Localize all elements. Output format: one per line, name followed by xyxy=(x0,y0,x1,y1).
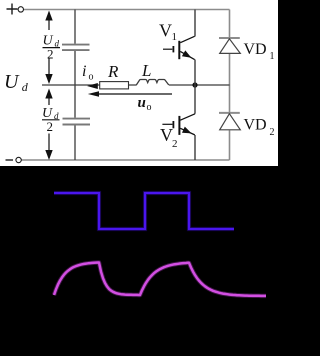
label Ud/2 upper xyxy=(43,34,61,62)
plus terminal xyxy=(7,4,24,15)
waveform uo square wave xyxy=(54,193,234,229)
label Ud/2 lower xyxy=(42,106,60,134)
node junction dot xyxy=(192,82,197,87)
inductor L xyxy=(136,80,169,86)
minus terminal xyxy=(6,157,22,162)
wire bottom rail xyxy=(21,159,229,161)
svg-text:1: 1 xyxy=(270,51,275,62)
current arrow io xyxy=(87,83,98,89)
wire top rail xyxy=(24,9,230,11)
wire right rail segments xyxy=(229,10,231,161)
label uo xyxy=(138,95,152,113)
svg-text:o: o xyxy=(89,72,94,83)
capacitor C1 xyxy=(62,45,90,51)
dimension arrow upper Ud/2 xyxy=(45,11,52,85)
diode VD2 xyxy=(219,113,240,130)
svg-text:2: 2 xyxy=(47,47,54,62)
svg-text:L: L xyxy=(141,61,151,80)
svg-text:VD: VD xyxy=(244,41,267,58)
label VD2 xyxy=(244,117,275,138)
capacitor C2 xyxy=(63,119,91,125)
svg-text:u: u xyxy=(138,95,146,111)
wire IGBT branch xyxy=(194,10,196,161)
label Ud source xyxy=(4,71,29,94)
svg-text:V: V xyxy=(159,21,172,41)
label V1 xyxy=(159,21,177,44)
svg-text:i: i xyxy=(82,63,86,80)
label V2 xyxy=(160,125,178,150)
transistor V1 (IGBT) xyxy=(163,36,195,59)
resistor R xyxy=(100,82,129,89)
svg-text:d: d xyxy=(22,80,29,94)
voltage arrow uo xyxy=(88,91,172,97)
svg-text:VD: VD xyxy=(244,117,267,134)
dimension arrow lower Ud/2 xyxy=(45,89,52,161)
svg-text:2: 2 xyxy=(172,138,178,150)
svg-text:1: 1 xyxy=(172,31,178,43)
svg-text:2: 2 xyxy=(47,119,54,134)
transistor V2 (IGBT) xyxy=(162,114,195,135)
svg-text:2: 2 xyxy=(270,127,275,138)
svg-text:R: R xyxy=(107,62,119,81)
waveform io load current xyxy=(54,263,266,296)
waveform background xyxy=(0,166,278,356)
diode VD1 xyxy=(219,38,240,53)
svg-text:o: o xyxy=(147,102,152,113)
label VD1 xyxy=(244,41,275,62)
wire load middle xyxy=(42,84,230,86)
label io xyxy=(82,63,94,83)
circuit background xyxy=(0,0,278,166)
wire capacitor branch xyxy=(74,10,76,161)
svg-text:U: U xyxy=(4,71,20,93)
